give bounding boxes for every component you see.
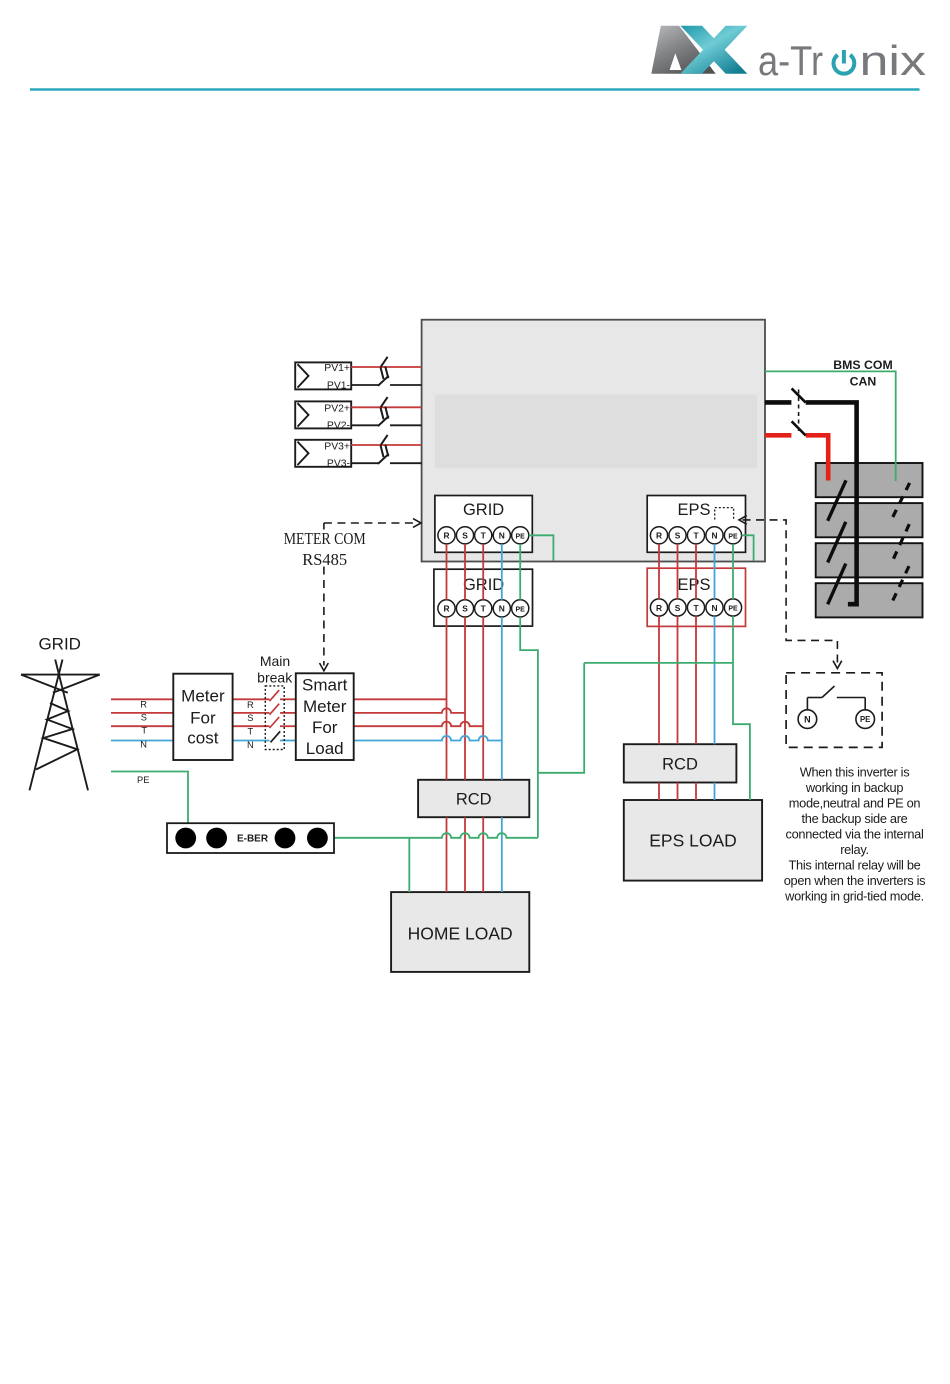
svg-text:T: T	[693, 603, 699, 613]
svg-text:When this inverter is: When this inverter is	[800, 764, 910, 779]
svg-text:R: R	[140, 700, 147, 710]
svg-text:N: N	[804, 714, 811, 724]
svg-text:N: N	[711, 603, 717, 613]
svg-text:R: R	[443, 531, 449, 541]
svg-text:cost: cost	[187, 729, 218, 748]
svg-text:This internal relay will be: This internal relay will be	[788, 858, 920, 873]
svg-text:open when the inverters is: open when the inverters is	[784, 873, 926, 888]
svg-text:N: N	[499, 531, 505, 541]
svg-text:CAN: CAN	[850, 374, 877, 388]
svg-text:T: T	[248, 726, 254, 736]
svg-text:the backup side are: the backup side are	[802, 811, 908, 826]
svg-text:PV2-: PV2-	[327, 420, 350, 431]
svg-text:EPS LOAD: EPS LOAD	[649, 831, 737, 851]
svg-text:For: For	[190, 709, 216, 728]
svg-text:nix: nix	[860, 37, 927, 84]
svg-text:GRID: GRID	[38, 634, 81, 653]
svg-text:S: S	[462, 531, 468, 541]
svg-text:T: T	[481, 604, 487, 614]
svg-text:METER COM: METER COM	[284, 529, 366, 548]
svg-text:working in grid-tied mode.: working in grid-tied mode.	[784, 889, 924, 904]
svg-text:T: T	[141, 726, 147, 736]
svg-text:Main: Main	[260, 653, 290, 669]
svg-text:S: S	[141, 713, 147, 723]
svg-text:N: N	[711, 531, 717, 541]
svg-text:a-Tr: a-Tr	[758, 37, 823, 84]
svg-text:N: N	[247, 740, 254, 750]
svg-text:HOME LOAD: HOME LOAD	[408, 924, 513, 944]
svg-text:Meter: Meter	[181, 687, 225, 706]
svg-text:R: R	[443, 604, 449, 614]
svg-text:For: For	[312, 718, 338, 737]
svg-text:GRID: GRID	[463, 501, 504, 519]
svg-text:S: S	[675, 603, 681, 613]
svg-text:N: N	[140, 740, 147, 750]
svg-text:R: R	[247, 700, 254, 710]
svg-text:N: N	[499, 604, 505, 614]
svg-text:BMS COM: BMS COM	[833, 358, 892, 372]
svg-text:S: S	[247, 713, 253, 723]
svg-text:T: T	[481, 531, 487, 541]
svg-text:PV2+: PV2+	[324, 403, 350, 414]
svg-text:S: S	[462, 604, 468, 614]
svg-text:Smart: Smart	[302, 676, 348, 695]
svg-text:EPS: EPS	[677, 501, 710, 519]
svg-text:Meter: Meter	[303, 697, 347, 716]
svg-text:RS485: RS485	[302, 550, 347, 569]
svg-text:RCD: RCD	[456, 791, 492, 809]
svg-text:PV3-: PV3-	[327, 459, 350, 470]
svg-text:PV1-: PV1-	[327, 380, 350, 391]
svg-text:PE: PE	[728, 533, 738, 540]
svg-text:Load: Load	[306, 739, 344, 758]
svg-text:EPS: EPS	[677, 576, 710, 594]
svg-text:break: break	[257, 670, 293, 686]
svg-text:S: S	[675, 531, 681, 541]
svg-text:PV3+: PV3+	[324, 442, 350, 453]
svg-text:PE: PE	[516, 606, 526, 613]
svg-text:connected via the internal: connected via the internal	[785, 827, 923, 842]
svg-text:PE: PE	[137, 775, 149, 785]
svg-text:R: R	[656, 531, 662, 541]
svg-text:RCD: RCD	[662, 756, 698, 774]
svg-text:T: T	[693, 531, 699, 541]
svg-text:E-BER: E-BER	[237, 834, 269, 845]
svg-text:PE: PE	[516, 533, 526, 540]
svg-text:relay.: relay.	[840, 842, 869, 857]
svg-text:PV1+: PV1+	[324, 363, 350, 374]
svg-text:mode,neutral and PE on: mode,neutral and PE on	[789, 795, 921, 810]
svg-text:PE: PE	[860, 715, 870, 724]
svg-text:PE: PE	[728, 606, 738, 613]
svg-text:R: R	[656, 603, 662, 613]
svg-text:working in backup: working in backup	[805, 780, 904, 795]
